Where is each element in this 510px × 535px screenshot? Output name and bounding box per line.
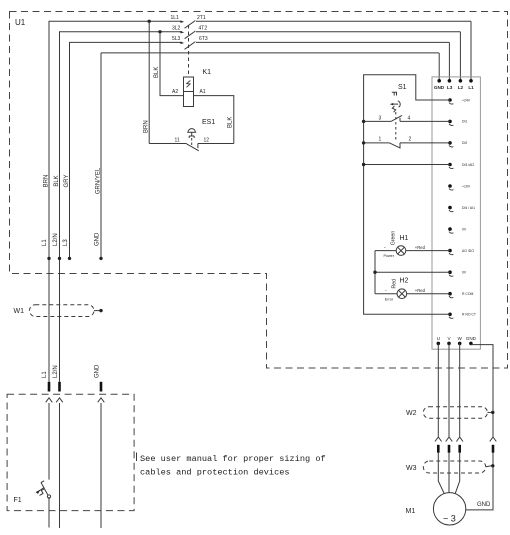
svg-text:S1: S1	[398, 84, 407, 91]
svg-text:Red: Red	[392, 279, 398, 289]
svg-text:L2/N: L2/N	[53, 365, 59, 378]
svg-text:Power: Power	[384, 254, 395, 258]
svg-text:H1: H1	[400, 235, 409, 242]
svg-text:F1: F1	[14, 497, 22, 504]
svg-text:K1: K1	[203, 69, 212, 76]
svg-text:GND: GND	[95, 232, 101, 246]
svg-text:L1: L1	[468, 85, 474, 90]
svg-text:DI4 / AI1: DI4 / AI1	[462, 206, 475, 210]
svg-text:AO /DO: AO /DO	[462, 249, 474, 253]
svg-text:1L1: 1L1	[171, 15, 180, 21]
svg-text:3: 3	[379, 116, 382, 122]
svg-text:A2: A2	[172, 89, 178, 95]
svg-text:0V: 0V	[462, 271, 467, 275]
svg-text:11: 11	[175, 138, 180, 144]
svg-text:BRN: BRN	[144, 120, 150, 133]
svg-text:M1: M1	[406, 508, 416, 515]
svg-text:GND: GND	[95, 364, 101, 378]
svg-text:BLK: BLK	[54, 175, 60, 186]
svg-text:3L2: 3L2	[172, 26, 181, 32]
svg-text:+10V: +10V	[462, 184, 471, 188]
svg-text:Green: Green	[391, 231, 397, 246]
svg-text:+24V: +24V	[462, 98, 471, 102]
svg-text:0V: 0V	[462, 227, 467, 231]
svg-text:W2: W2	[406, 410, 417, 417]
svg-text:2T1: 2T1	[197, 15, 206, 21]
svg-text:5L3: 5L3	[172, 36, 181, 42]
svg-text:See user manual for proper siz: See user manual for proper sizing of	[140, 454, 326, 464]
svg-text:12: 12	[204, 138, 210, 144]
svg-text:GND: GND	[434, 85, 445, 90]
svg-text:2: 2	[409, 137, 412, 143]
svg-text:DI1: DI1	[462, 120, 467, 124]
svg-text:DI2: DI2	[462, 141, 467, 145]
svg-text:R COM: R COM	[462, 292, 473, 296]
svg-text:H2: H2	[400, 278, 409, 285]
svg-text:4T2: 4T2	[199, 26, 208, 32]
svg-text:GND: GND	[477, 502, 491, 508]
svg-text:GRN/YEL: GRN/YEL	[96, 167, 102, 194]
svg-text:BRN: BRN	[44, 175, 50, 188]
svg-text:+Red: +Red	[415, 245, 426, 250]
svg-text:BLK: BLK	[228, 117, 234, 128]
svg-text:W3: W3	[406, 465, 417, 472]
svg-text:W: W	[458, 336, 463, 341]
svg-text:1: 1	[379, 137, 382, 143]
svg-text:GRY: GRY	[64, 175, 70, 188]
svg-text:6T3: 6T3	[199, 36, 208, 42]
svg-text:+Red: +Red	[415, 288, 426, 293]
svg-text:L2: L2	[458, 85, 464, 90]
svg-text:L1: L1	[42, 371, 48, 378]
svg-text:L3: L3	[63, 239, 69, 246]
svg-text:DI3 /AI2: DI3 /AI2	[462, 163, 474, 167]
svg-text:GND: GND	[466, 336, 477, 341]
svg-text:R NO CT: R NO CT	[462, 313, 476, 317]
svg-text:A1: A1	[200, 89, 206, 95]
svg-text:cables and protection devices: cables and protection devices	[140, 467, 290, 477]
svg-text:U1: U1	[15, 18, 26, 27]
svg-text:L1: L1	[42, 239, 48, 246]
svg-text:U: U	[437, 336, 440, 341]
svg-text:BLK: BLK	[154, 67, 160, 78]
svg-text:L3: L3	[447, 85, 453, 90]
svg-text:W1: W1	[14, 308, 25, 315]
svg-text:4: 4	[408, 116, 411, 122]
svg-text:Error: Error	[385, 298, 394, 302]
svg-text:~ 3: ~ 3	[443, 514, 456, 524]
svg-text:ES1: ES1	[202, 119, 215, 126]
svg-text:L2/N: L2/N	[53, 233, 59, 246]
